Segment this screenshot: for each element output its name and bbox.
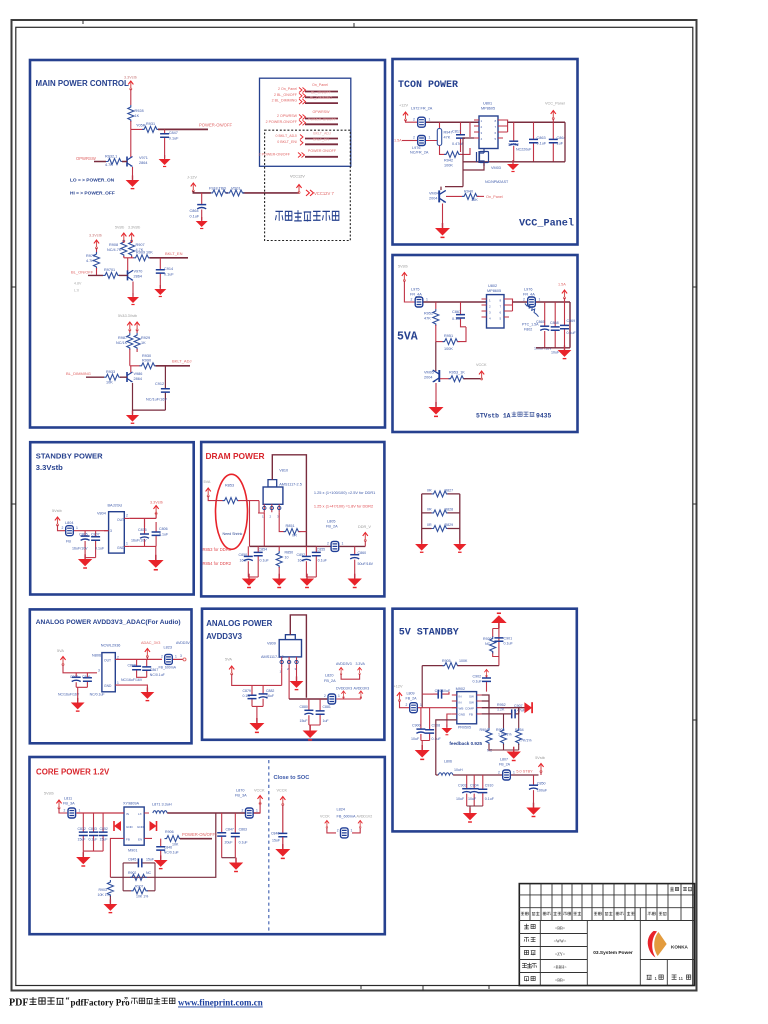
wire input to pin — [250, 501, 265, 547]
inductor L871 — [153, 811, 167, 813]
capacitor C864 — [201, 193, 203, 220]
svg-text:100K: 100K — [444, 347, 453, 351]
resistor R829 — [432, 526, 449, 532]
net arrow output — [524, 702, 532, 713]
svg-text:ADAC_3V3: ADAC_3V3 — [141, 641, 160, 645]
bead L809 — [410, 703, 418, 713]
rail to IC — [76, 812, 124, 814]
pins — [264, 504, 279, 512]
svg-text:R902: R902 — [128, 871, 136, 875]
svg-text:POWER ON/OFF: POWER ON/OFF — [308, 149, 337, 153]
capacitor C867 — [461, 302, 467, 327]
wire POWER-ON/OFF — [158, 128, 208, 130]
svg-text:R970: R970 — [104, 268, 113, 272]
svg-text:L807: L807 — [500, 758, 508, 762]
svg-text:BKLT_ADJ: BKLT_ADJ — [172, 359, 192, 364]
svg-text:0 BKLT_ADJ/: 0 BKLT_ADJ/ — [275, 134, 297, 138]
svg-text:NC/1K: NC/1K — [116, 341, 128, 345]
svg-text:1: 1 — [429, 136, 431, 140]
wire gnd — [222, 858, 236, 862]
svg-text:16uF: 16uF — [298, 559, 307, 563]
svg-text:3.3Vstb: 3.3Vstb — [128, 226, 140, 230]
svg-text:C817: C817 — [452, 130, 461, 134]
svg-text:FB_3A: FB_3A — [63, 802, 75, 806]
svg-text:2: 2 — [523, 297, 525, 301]
wire output — [509, 299, 513, 311]
svg-text:C904: C904 — [470, 784, 479, 788]
svg-text:L811: L811 — [64, 797, 72, 801]
capacitor C909 horizontal — [433, 692, 449, 695]
capacitor C817 — [460, 122, 462, 152]
svg-text:C845: C845 — [128, 857, 136, 861]
svg-text:10uF: 10uF — [456, 797, 465, 801]
svg-text:SW: SW — [469, 695, 474, 699]
svg-text:AMS1117-2.5: AMS1117-2.5 — [279, 482, 302, 486]
ic pins — [452, 695, 482, 714]
svg-text:C868: C868 — [550, 321, 559, 325]
svg-text:C854: C854 — [259, 548, 268, 552]
svg-text:VCC_Panel: VCC_Panel — [545, 102, 565, 106]
svg-text:1.5A: 1.5A — [394, 139, 402, 143]
svg-text:POWER-ON/OFF: POWER-ON/OFF — [182, 832, 215, 837]
svg-text:KONKA: KONKA — [671, 945, 689, 950]
svg-text:R932 1: R932 1 — [105, 155, 117, 159]
svg-text:2 POWER-ON/OFF: 2 POWER-ON/OFF — [266, 120, 298, 124]
svg-text:NC/1uF/16V: NC/1uF/16V — [146, 398, 167, 402]
svg-text:0.1uF: 0.1uF — [169, 137, 179, 141]
svg-text:10K 1%: 10K 1% — [98, 893, 110, 897]
resistor R906c — [165, 836, 182, 842]
svg-text:L:0: L:0 — [74, 289, 79, 293]
transistor V986 — [130, 366, 132, 373]
capacitor C809 — [86, 673, 88, 688]
svg-text:C869: C869 — [567, 319, 576, 323]
svg-text:3: 3 — [180, 654, 182, 658]
svg-text:VM05: VM05 — [424, 371, 434, 375]
svg-text:”: ” — [124, 996, 128, 1005]
svg-text:R920: R920 — [483, 637, 492, 641]
wire — [63, 665, 97, 673]
wires — [422, 494, 460, 543]
svg-text:R828: R828 — [445, 508, 454, 512]
ground — [141, 687, 155, 700]
ground — [126, 411, 139, 424]
output rail — [289, 698, 327, 700]
capacitor C903 — [467, 775, 483, 806]
svg-text:R827: R827 — [445, 489, 454, 493]
svg-text:3.3Vstb: 3.3Vstb — [36, 463, 63, 472]
box DRAM POWER — [201, 442, 384, 596]
svg-text:1.5A: 1.5A — [558, 283, 566, 287]
svg-text:5VA: 5VA — [57, 649, 64, 653]
svg-text:NC/4.7K: NC/4.7K — [107, 248, 122, 252]
svg-text:1.25 x (1+47/100) =1.8V for DD: 1.25 x (1+47/100) =1.8V for DDR2 — [314, 504, 373, 509]
capacitor C806 — [155, 522, 157, 546]
regulator U804 BAJ2GU — [109, 512, 125, 553]
ground — [249, 718, 264, 732]
resistor R954 — [518, 708, 520, 728]
svg-text:R906: R906 — [496, 728, 505, 732]
svg-text:1: 1 — [426, 297, 428, 301]
svg-text:ANALOG POWER: ANALOG POWER — [206, 619, 272, 628]
svg-text:R906: R906 — [165, 830, 174, 834]
svg-text:R951: R951 — [444, 334, 453, 338]
svg-text:AVDD3V3: AVDD3V3 — [176, 641, 192, 645]
bead L870 — [246, 808, 254, 818]
svg-text:15uF: 15uF — [300, 719, 308, 723]
capacitor C808 — [75, 673, 77, 688]
svg-text:OPWRSW: OPWRSW — [313, 110, 331, 114]
svg-text:C864: C864 — [557, 136, 566, 140]
svg-text:100uF/16V: 100uF/16V — [534, 347, 552, 351]
bead L805 — [316, 545, 330, 547]
svg-text:BKLT_ADJ: BKLT_ADJ — [313, 132, 331, 136]
svg-text:5Vstb: 5Vstb — [44, 792, 54, 796]
svg-text:C867: C867 — [150, 668, 158, 672]
svg-text:2: 2 — [270, 515, 272, 519]
svg-text:On_Panel: On_Panel — [486, 195, 503, 199]
svg-text:Need Shrink: Need Shrink — [223, 532, 243, 536]
ground mid pin — [296, 665, 298, 680]
svg-text:BAJ2GU: BAJ2GU — [108, 504, 123, 508]
wire gnd — [252, 706, 263, 722]
svg-text:FB_3A: FB_3A — [235, 794, 247, 798]
wire out — [288, 665, 290, 699]
svg-text:M902: M902 — [456, 687, 466, 691]
svg-text:50uF/16V: 50uF/16V — [358, 562, 374, 566]
wire out — [339, 545, 365, 547]
svg-text:VM04: VM04 — [429, 192, 439, 196]
capacitor C865 — [544, 302, 546, 348]
svg-text:C805: C805 — [79, 533, 88, 537]
svg-text:OUT: OUT — [117, 518, 124, 522]
left section values — [553, 926, 567, 983]
op-amp U802 — [487, 295, 505, 328]
svg-text:C864: C864 — [190, 209, 199, 213]
svg-text:R929: R929 — [141, 336, 150, 340]
svg-text:15uF: 15uF — [100, 838, 108, 842]
svg-text:C852: C852 — [297, 553, 306, 557]
svg-text:1: 1 — [351, 828, 353, 832]
svg-text:3.3Vstb: 3.3Vstb — [124, 76, 137, 80]
svg-text:L823: L823 — [164, 646, 172, 650]
wire 12V rail — [193, 191, 299, 193]
svg-text:2: 2 — [411, 297, 413, 301]
svg-text:3.3Vstb: 3.3Vstb — [150, 501, 163, 505]
svg-text:16uF/10V: 16uF/10V — [131, 539, 147, 543]
svg-text:1: 1 — [117, 681, 119, 685]
svg-text:10K 1%: 10K 1% — [136, 895, 148, 899]
svg-text:GND: GND — [104, 684, 112, 688]
svg-text:FR_4A: FR_4A — [410, 292, 422, 296]
svg-text:NC/16uF/16V: NC/16uF/16V — [121, 678, 143, 682]
resistor R952 — [435, 302, 437, 309]
svg-text:0.1uF: 0.1uF — [243, 694, 252, 698]
svg-text:NC/0.1uF: NC/0.1uF — [150, 673, 165, 677]
rail out — [167, 812, 260, 814]
capacitor C902 — [484, 670, 488, 677]
transistor VM03 mosfet — [477, 149, 485, 167]
svg-text:L806: L806 — [444, 760, 452, 764]
svg-text:L820: L820 — [325, 674, 333, 678]
svg-text:0.47uF: 0.47uF — [514, 709, 526, 713]
box 5VA — [393, 255, 578, 432]
capacitor C850b — [533, 775, 535, 807]
svg-text:DVDD3V3: DVDD3V3 — [336, 687, 352, 691]
output wires — [482, 695, 528, 708]
capacitor C852b — [102, 813, 104, 851]
svg-text:VCCK: VCCK — [277, 789, 288, 793]
svg-text:2 BL_DIMMING: 2 BL_DIMMING — [272, 99, 298, 103]
wire — [400, 701, 410, 708]
svg-text:GND: GND — [126, 825, 134, 829]
svg-text:NCWL2936: NCWL2936 — [101, 644, 121, 648]
wire — [426, 122, 440, 140]
svg-text:BKLT_EN: BKLT_EN — [165, 251, 183, 256]
svg-text:2: 2 — [62, 526, 64, 530]
svg-text:FB: FB — [126, 838, 130, 842]
regulator NCWL2936 — [102, 653, 115, 692]
svg-text:TCON POWER: TCON POWER — [398, 80, 458, 91]
resistor R906b — [503, 714, 505, 728]
ground — [154, 285, 166, 297]
power arrows pair — [127, 322, 132, 331]
svg-text:R907: R907 — [135, 884, 143, 888]
svg-text:FB_2A: FB_2A — [324, 679, 336, 683]
fuse F918 — [211, 190, 228, 196]
header row C pseudo labels — [521, 912, 667, 916]
wire — [404, 281, 414, 303]
svg-text:4.8V: 4.8V — [74, 282, 82, 286]
svg-text:2864: 2864 — [134, 377, 142, 381]
label 与电源部分接口 (pseudo CJK) — [275, 210, 338, 221]
svg-text:MAIN POWER CONTROL: MAIN POWER CONTROL — [36, 79, 130, 88]
svg-text:5Vstb: 5Vstb — [115, 226, 124, 230]
svg-text:GND: GND — [459, 713, 467, 717]
svg-text:R952: R952 — [424, 312, 433, 316]
ground — [71, 698, 85, 711]
resistor R902 — [130, 874, 147, 880]
svg-text:0.1uF: 0.1uF — [537, 142, 547, 146]
left section labels — [522, 924, 536, 981]
op-amp U801 — [479, 116, 498, 149]
resistor R905 — [422, 665, 444, 667]
svg-text:C807: C807 — [91, 533, 100, 537]
svg-text:5TVstb 1A: 5TVstb 1A — [476, 412, 511, 419]
svg-text:Y05R: Y05R — [136, 124, 146, 128]
capacitor C875 — [144, 527, 146, 546]
wire — [130, 89, 132, 105]
ground — [526, 803, 540, 817]
svg-text:Close to SOC: Close to SOC — [274, 775, 310, 781]
need-shrink ellipse — [216, 474, 248, 549]
svg-text:0.1uF: 0.1uF — [473, 680, 483, 684]
transistor V970 — [127, 258, 129, 271]
svg-text:GND: GND — [137, 825, 145, 829]
svg-text:AVDD1V2: AVDD1V2 — [357, 815, 373, 819]
svg-text:VCC12V 7: VCC12V 7 — [314, 191, 334, 196]
capacitor C850 — [247, 546, 249, 577]
svg-text:NC/NPM2AST: NC/NPM2AST — [485, 180, 509, 184]
svg-text:L976: L976 — [524, 288, 532, 292]
wire emitter — [132, 167, 134, 179]
svg-text:VCCK: VCCK — [254, 789, 265, 793]
svg-text:1: 1 — [262, 515, 264, 519]
svg-text:+12V: +12V — [399, 104, 408, 108]
svg-text:100uF: 100uF — [537, 789, 548, 793]
svg-text:IN: IN — [459, 701, 462, 705]
capacitor C845 horizontal — [123, 862, 155, 864]
bead L975 — [415, 297, 423, 307]
svg-text:C881: C881 — [323, 705, 331, 709]
svg-text:C850: C850 — [239, 553, 248, 557]
svg-text:R928: R928 — [135, 109, 144, 113]
bead L976 — [418, 136, 426, 146]
svg-text:AVDD3V3: AVDD3V3 — [206, 632, 242, 641]
wire top loop — [290, 615, 306, 698]
capacitor C880 — [308, 699, 310, 725]
wire main rail — [426, 121, 479, 123]
svg-text:3.3Vstb: 3.3Vstb — [89, 234, 102, 238]
wire emitter loop — [133, 383, 166, 414]
svg-text:L809: L809 — [407, 692, 415, 696]
svg-text:COMP: COMP — [465, 707, 474, 711]
wire — [74, 530, 109, 532]
capacitor C855 — [315, 546, 317, 577]
svg-text:C863: C863 — [537, 136, 546, 140]
svg-text:PR0505: PR0505 — [458, 726, 471, 730]
svg-text:<BB>: <BB> — [555, 926, 566, 931]
resistor R853 — [223, 498, 240, 504]
svg-text:47K: 47K — [424, 317, 431, 321]
svg-text:R904: R904 — [480, 728, 489, 732]
thermistor PTC F802 — [525, 304, 539, 317]
wire gnd rail — [463, 122, 565, 162]
output rail — [453, 774, 502, 776]
svg-text:1: 1 — [76, 526, 78, 530]
svg-text:100K: 100K — [444, 164, 453, 168]
wire — [238, 501, 250, 547]
wire POWER-ON/OFF — [180, 838, 212, 840]
wire BKLT_EN — [150, 257, 189, 259]
svg-text:EN: EN — [138, 838, 142, 842]
capacitor C900 — [420, 708, 422, 741]
wire 5.0 STBY — [511, 774, 539, 776]
wire — [536, 302, 570, 348]
svg-text:C879: C879 — [243, 689, 251, 693]
svg-text:100K: 100K — [459, 659, 468, 663]
svg-text:2C858: 2C858 — [508, 143, 519, 147]
wire bottom — [536, 347, 570, 349]
capacitor C854 — [257, 546, 259, 577]
svg-text:2: 2 — [406, 703, 408, 707]
title row A pseudo text — [670, 887, 679, 892]
wire emitter — [435, 383, 437, 406]
resistor R953 — [440, 378, 450, 380]
ground — [196, 217, 208, 229]
svg-text:16uF: 16uF — [240, 559, 249, 563]
svg-text:R829: R829 — [445, 523, 454, 527]
ground — [126, 175, 140, 188]
capacitor C847 — [164, 129, 166, 158]
svg-text:1.2K/1%: 1.2K/1% — [498, 733, 512, 737]
svg-text:ANALOG POWER AVDD3V3_ADAC(For: ANALOG POWER AVDD3V3_ADAC(For Audio) — [36, 619, 181, 626]
bead L820 — [328, 694, 336, 704]
svg-text:LX: LX — [138, 812, 142, 816]
capacitor C908 — [429, 708, 431, 741]
resistor R990 — [140, 363, 157, 369]
ground — [242, 574, 256, 588]
resistor R828 — [432, 510, 449, 516]
svg-text:3: 3 — [98, 669, 100, 673]
svg-text:11: 11 — [679, 976, 684, 981]
svg-text:2: 2 — [324, 694, 326, 698]
svg-text:C860: C860 — [358, 551, 367, 555]
ic M902 — [457, 692, 477, 724]
svg-text:2: 2 — [413, 136, 415, 140]
ground — [272, 574, 286, 588]
ground — [300, 574, 314, 588]
svg-text:2: 2 — [337, 828, 339, 832]
svg-text:0.1uF: 0.1uF — [504, 642, 514, 646]
svg-text:C855: C855 — [317, 548, 326, 552]
svg-text:R953_1K: R953_1K — [449, 371, 465, 375]
ground left — [415, 540, 428, 553]
svg-text:15uF: 15uF — [78, 838, 86, 842]
svg-text:0R: 0R — [427, 489, 432, 493]
capacitor C914 — [159, 258, 161, 288]
svg-text:2: 2 — [161, 655, 163, 659]
svg-text:L975: L975 — [411, 288, 419, 292]
svg-text:C868: C868 — [128, 664, 136, 668]
wire emitter — [442, 204, 444, 228]
svg-text:0.1uF: 0.1uF — [164, 273, 174, 277]
capacitor C867b — [146, 659, 148, 677]
svg-text:FR_4A: FR_4A — [523, 292, 535, 296]
ground — [558, 345, 572, 358]
svg-text:MP8605: MP8605 — [481, 107, 495, 111]
ground — [78, 554, 92, 568]
ground — [507, 160, 519, 172]
resistor R947 — [437, 129, 441, 146]
wire — [59, 808, 67, 813]
svg-text:L805: L805 — [327, 520, 335, 524]
capacitor C860 — [354, 546, 356, 577]
resistor R951 — [436, 341, 444, 343]
svg-text:1: 1 — [655, 976, 658, 981]
ground — [303, 726, 318, 740]
wires ic — [110, 813, 152, 877]
svg-text:U801: U801 — [483, 102, 492, 106]
ground — [159, 155, 171, 167]
svg-text:SW: SW — [469, 701, 474, 705]
svg-text:<BBH>: <BBH> — [553, 965, 567, 970]
svg-text:DRAM POWER: DRAM POWER — [206, 451, 265, 461]
svg-text:1: 1 — [79, 808, 81, 812]
svg-text:5V STANDBY: 5V STANDBY — [399, 628, 459, 639]
capacitor C863 — [533, 122, 535, 162]
svg-text:0R: 0R — [292, 534, 297, 538]
svg-text:BL_ON/OFF: BL_ON/OFF — [311, 90, 332, 94]
inductor L806 — [436, 720, 457, 775]
sheet numbers — [647, 975, 691, 981]
svg-text:On_Panel: On_Panel — [312, 83, 328, 87]
ground — [429, 402, 444, 416]
svg-text:R933: R933 — [106, 370, 115, 374]
svg-text:1uF: 1uF — [323, 719, 329, 723]
capacitor C868 — [554, 302, 556, 348]
svg-text:2 BL_ON/OFF: 2 BL_ON/OFF — [274, 93, 298, 97]
